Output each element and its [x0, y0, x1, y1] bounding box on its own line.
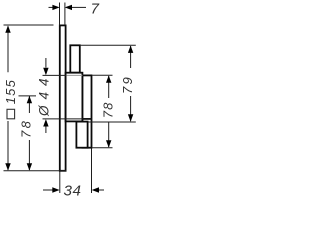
arrow 34 left (points right): [52, 187, 59, 192]
dimension line 78-left vertical: [28, 96, 30, 113]
svg-text:Ø44: Ø44: [37, 72, 52, 117]
wire: 78-right bottom extension line: [92, 147, 112, 149]
arrow 79 top: [128, 46, 133, 53]
lower button box: [76, 122, 87, 148]
wire: 34 left leader: [43, 189, 53, 191]
wire: plate bottom edge extension (155 dim): [4, 170, 67, 172]
arrow 155 top: [5, 25, 10, 32]
top housing box: [70, 45, 80, 72]
wire: center axis extension (78-left): [19, 95, 37, 97]
arrow Ø44 top (points down): [43, 68, 48, 75]
arrow 78-right bottom: [106, 140, 111, 147]
svg-text:78: 78: [100, 101, 115, 118]
arrow 7-dim right: [65, 5, 72, 10]
wire: 7-dim left leader: [49, 6, 54, 8]
wire: 7-dim right leader: [71, 6, 86, 8]
wire: 34 left extension line down: [59, 172, 61, 194]
plate (side view, 7mm thick trim plate): [60, 25, 66, 170]
arrow 155 bottom: [5, 163, 10, 170]
wire: Ø44 bottom leader vertical: [45, 126, 47, 133]
dimension line 155 vertical: [7, 26, 9, 72]
wire: Ø44 top extension line: [43, 74, 67, 76]
wire: 78-right top extension line: [92, 74, 112, 76]
wire: Ø44 top leader vertical: [45, 58, 47, 68]
svg-text:78: 78: [19, 119, 34, 138]
wire: Ø44 bottom extension line: [43, 118, 92, 120]
handle cap bottom edge: [83, 118, 92, 120]
svg-text:34: 34: [64, 183, 82, 200]
dimension line 79 vertical: [130, 46, 132, 68]
wire: extension line plate-left up (7 dim): [59, 3, 61, 26]
handle outer profile (cap): [83, 75, 92, 147]
wire: 34 right leader: [97, 189, 105, 191]
arrow 7-dim left: [52, 5, 59, 10]
arrow 78-right top: [106, 75, 111, 82]
arrow Ø44 bottom (points up): [43, 119, 48, 126]
wire: 79 bottom extension line: [88, 121, 136, 123]
arrow 79 bottom: [128, 114, 133, 121]
dimension line 78-right vertical: [108, 76, 110, 98]
wire: 34 right extension line down: [91, 149, 93, 194]
arrow 78-left bottom: [27, 163, 32, 170]
svg-text:79: 79: [120, 75, 135, 94]
svg-text:155: 155: [3, 79, 18, 104]
arrow 78-left top: [27, 96, 32, 103]
middle housing box: [66, 73, 83, 122]
wire: plate top edge extension to left (155 dim): [4, 24, 54, 26]
arrow 34 right (points left): [92, 187, 99, 192]
wire: 79 top extension line: [81, 44, 136, 46]
square symbol of label 155: [7, 109, 15, 119]
wire: extension line plate-right up (7 dim): [64, 3, 66, 26]
svg-text:7: 7: [91, 1, 100, 18]
